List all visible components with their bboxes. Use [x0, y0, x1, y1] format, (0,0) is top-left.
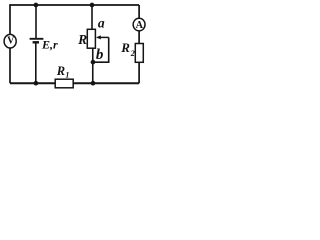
wire ammeter to R2 — [138, 31, 140, 44]
node junction battery-top — [34, 3, 39, 8]
resistor R1 body — [55, 79, 73, 88]
wire battery branch lower — [35, 42, 37, 83]
wire rheostat top branch — [91, 5, 93, 29]
resistor R2 body — [135, 44, 143, 63]
svg-text:E,r: E,r — [41, 37, 58, 51]
voltmeter V — [4, 34, 16, 48]
wire left rail lower — [9, 48, 11, 83]
svg-text:A: A — [136, 20, 144, 31]
svg-text:b: b — [96, 47, 104, 63]
wire rheostat bottom branch — [92, 48, 94, 83]
node junction battery-bottom — [34, 81, 39, 86]
svg-text:R: R — [120, 40, 130, 55]
svg-text:R: R — [77, 32, 87, 47]
wire R2 to bottom rail — [138, 62, 140, 83]
node junction rheostat-top — [90, 3, 95, 8]
svg-text:V: V — [7, 36, 15, 47]
rheostat wiper arrow — [96, 35, 109, 39]
wire bottom rail — [10, 82, 139, 84]
battery E,r long plate — [30, 38, 44, 40]
battery E,r short plate — [33, 41, 39, 43]
node junction rheostat-bottom — [91, 81, 96, 86]
rheostat R body — [87, 29, 95, 48]
svg-text:R: R — [56, 64, 65, 78]
svg-text:1: 1 — [65, 71, 69, 80]
ammeter A — [133, 18, 145, 31]
wire left rail upper — [9, 4, 11, 34]
wire right rail upper — [138, 5, 140, 19]
node junction wiper-bottom — [91, 60, 96, 65]
wire battery branch upper — [35, 5, 37, 39]
wire wiper loop — [93, 37, 109, 62]
wire top rail — [10, 4, 139, 6]
svg-text:a: a — [98, 16, 105, 31]
svg-text:2: 2 — [130, 49, 135, 58]
